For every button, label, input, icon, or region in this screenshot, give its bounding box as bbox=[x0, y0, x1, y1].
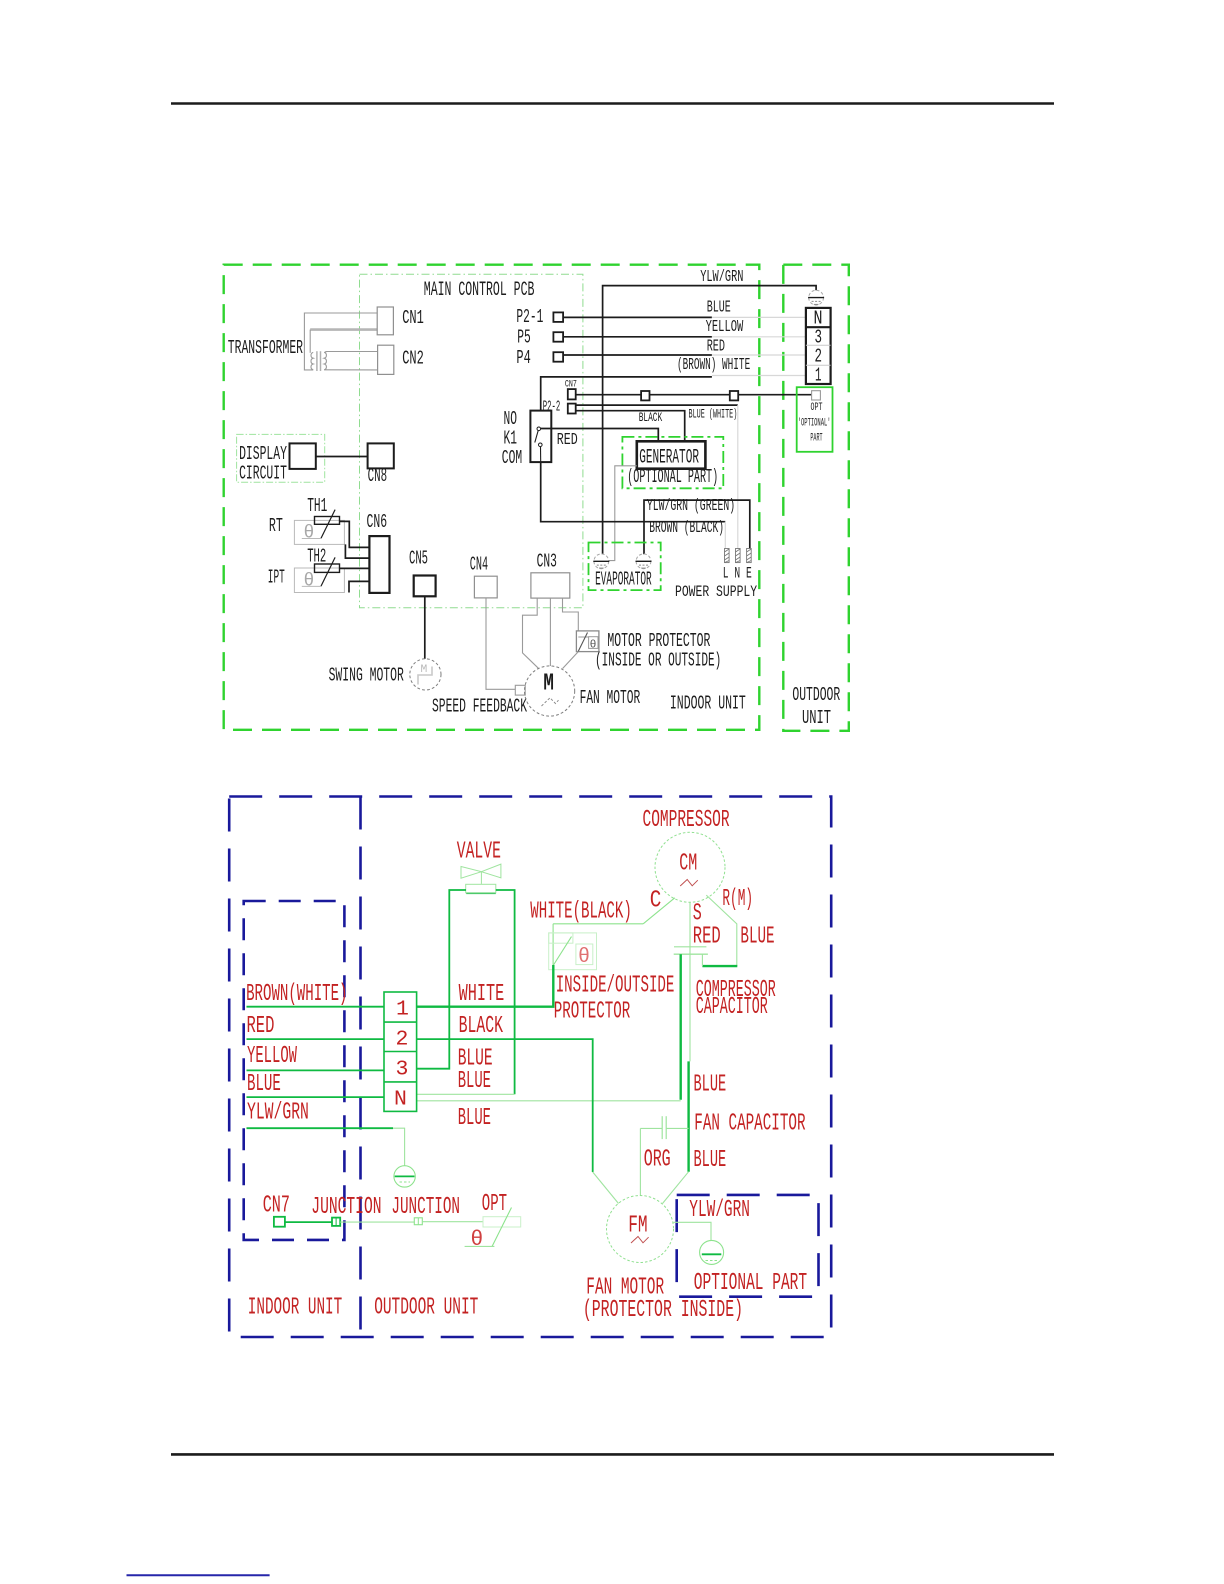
swing motor SM bbox=[410, 659, 441, 690]
connector CN8 bbox=[368, 443, 394, 468]
wire TH2 return to CN6 pin4 bbox=[349, 581, 369, 592]
wire motor protector to fan motor bbox=[563, 652, 579, 669]
svg-text:BROWN (BLACK): BROWN (BLACK) bbox=[649, 519, 724, 538]
wire generator to evaporator bbox=[609, 466, 637, 561]
generator block bbox=[637, 441, 706, 468]
wire BROWN/WHITE K1 to terminal 1 bbox=[541, 377, 712, 411]
svg-text:N: N bbox=[394, 1088, 407, 1112]
svg-text:BLUE: BLUE bbox=[247, 1071, 281, 1098]
OPT terminal square bbox=[812, 391, 821, 400]
svg-text:SPEED FEEDBACK: SPEED FEEDBACK bbox=[432, 696, 527, 718]
terminal block N-3-2-1 bbox=[806, 308, 831, 384]
svg-text:BLUE (WHITE): BLUE (WHITE) bbox=[689, 408, 738, 422]
connector CN7 bbox=[568, 389, 576, 399]
power supply terminal L bbox=[725, 549, 730, 563]
svg-text:YLW/GRN: YLW/GRN bbox=[247, 1100, 309, 1127]
wire CN3 pin3 to motor protector bbox=[563, 598, 579, 631]
evaporator earth terminal right bbox=[636, 554, 652, 569]
svg-text:θ: θ bbox=[470, 1228, 483, 1252]
outdoor unit dashed border bbox=[783, 265, 849, 731]
wire junction to junction bbox=[340, 1221, 414, 1223]
wire YELLOW to terminal 3 bbox=[247, 1069, 385, 1071]
svg-text:L N E: L N E bbox=[723, 565, 752, 583]
svg-text:YELLOW: YELLOW bbox=[706, 318, 744, 337]
svg-text:INDOOR UNIT: INDOOR UNIT bbox=[670, 693, 746, 715]
wire BLACK terminal 2 to fan motor bbox=[417, 1039, 593, 1172]
svg-text:MAIN CONTROL PCB: MAIN CONTROL PCB bbox=[424, 279, 535, 302]
svg-text:CN1: CN1 bbox=[402, 307, 424, 329]
svg-text:OUTDOOR: OUTDOOR bbox=[792, 684, 840, 706]
wire CN5 to swing motor bbox=[424, 596, 426, 659]
OPT optional part box bbox=[797, 387, 833, 452]
junction earth circle bbox=[394, 1166, 415, 1187]
svg-text:(INSIDE OR OUTSIDE): (INSIDE OR OUTSIDE) bbox=[595, 650, 721, 672]
wire YLW/GRN to junction earth bbox=[247, 1127, 394, 1129]
wire BROWN(WHITE) to terminal 1 bbox=[247, 1006, 385, 1008]
relay K1 bbox=[530, 411, 551, 463]
svg-text:TH1: TH1 bbox=[307, 495, 327, 517]
svg-text:BLUE: BLUE bbox=[458, 1105, 491, 1132]
svg-text:BLUE: BLUE bbox=[458, 1068, 491, 1095]
svg-text:P2-1: P2-1 bbox=[516, 306, 543, 328]
svg-text:θ: θ bbox=[578, 946, 590, 969]
wire RED P4 to terminal 2 bbox=[563, 354, 712, 356]
compressor capacitor plates bbox=[674, 946, 706, 948]
wire BROWN(BLACK) K1 COM to power supply L bbox=[541, 462, 726, 522]
svg-text:EVAPORATOR: EVAPORATOR bbox=[595, 569, 652, 591]
svg-text:CN7: CN7 bbox=[263, 1193, 290, 1220]
svg-text:TRANSFORMER: TRANSFORMER bbox=[228, 337, 303, 359]
wire P2-2 to power supply N bbox=[576, 404, 738, 406]
svg-text:FM: FM bbox=[628, 1213, 647, 1240]
outdoor/indoor outer dashed box bbox=[229, 797, 831, 1338]
svg-text:1: 1 bbox=[815, 365, 822, 387]
connector CN4 bbox=[474, 576, 497, 598]
svg-text:RED: RED bbox=[247, 1013, 275, 1040]
junction plug 2 bbox=[414, 1218, 422, 1225]
wire WHITE protector to terminal 1 bbox=[417, 965, 554, 1007]
valve symbol bbox=[461, 864, 501, 893]
inside/outside protector symbol bbox=[549, 933, 597, 970]
svg-text:BLACK: BLACK bbox=[459, 1013, 504, 1040]
svg-text:CN3: CN3 bbox=[537, 551, 557, 573]
junction plug 1 bbox=[332, 1218, 340, 1226]
connector P5 bbox=[553, 332, 563, 342]
svg-text:OPTIONAL PART: OPTIONAL PART bbox=[694, 1270, 807, 1297]
svg-text:UNIT: UNIT bbox=[802, 707, 831, 729]
svg-text:BROWN(WHITE): BROWN(WHITE) bbox=[246, 981, 347, 1008]
svg-text:YLW/GRN: YLW/GRN bbox=[700, 268, 743, 287]
connector CN1 bbox=[377, 307, 393, 335]
connector P2-1 bbox=[553, 312, 563, 322]
svg-text:INSIDE/OUTSIDE: INSIDE/OUTSIDE bbox=[556, 973, 675, 1000]
connector P4 bbox=[553, 352, 563, 362]
svg-text:YELLOW: YELLOW bbox=[247, 1043, 297, 1070]
wire TH2 to CN6 pin3 bbox=[340, 567, 370, 569]
page top rule bbox=[171, 102, 1054, 105]
wire BLUE compressor to fan motor bbox=[687, 1061, 689, 1171]
svg-text:VALVE: VALVE bbox=[457, 839, 501, 866]
wire YLW/GRN(GREEN) evaporator to power supply E bbox=[644, 500, 750, 554]
wire CN4 to speed feedback tap bbox=[486, 598, 515, 689]
fan motor M bbox=[525, 666, 575, 716]
indoor/outdoor divider bbox=[359, 797, 362, 1338]
main control pcb dash-dot border bbox=[360, 274, 583, 608]
wire BLUE P2-1 to terminal N bbox=[563, 316, 712, 318]
svg-text:(OPTIONAL PART): (OPTIONAL PART) bbox=[627, 466, 718, 488]
motor protector symbol bbox=[576, 631, 599, 652]
svg-text:θ: θ bbox=[304, 524, 315, 544]
svg-text:CN4: CN4 bbox=[470, 554, 488, 576]
svg-text:(PROTECTOR INSIDE): (PROTECTOR INSIDE) bbox=[583, 1297, 743, 1324]
wire junction to OPT protector bbox=[422, 1221, 483, 1223]
svg-text:RT: RT bbox=[269, 515, 283, 537]
wire transformer primary to CN1 bbox=[304, 313, 377, 370]
svg-text:PART: PART bbox=[810, 433, 822, 445]
svg-text:JUNCTION: JUNCTION bbox=[311, 1194, 381, 1221]
wire compressor S lead bbox=[689, 902, 691, 1061]
wire CN3 pin1 to fan motor bbox=[523, 598, 539, 668]
svg-text:FAN CAPACITOR: FAN CAPACITOR bbox=[694, 1111, 805, 1138]
display circuit dotted box bbox=[237, 434, 325, 482]
svg-text:M: M bbox=[543, 671, 554, 698]
display circuit block bbox=[290, 443, 316, 469]
svg-text:BLACK: BLACK bbox=[639, 411, 663, 425]
svg-text:'OPTIONAL': 'OPTIONAL' bbox=[798, 418, 831, 430]
wire TH1 to CN6 pin1 bbox=[340, 521, 370, 547]
ground symbol outdoor bbox=[808, 290, 824, 305]
svg-text:COMPRESSOR: COMPRESSOR bbox=[643, 807, 730, 834]
evaporator dash-dot box bbox=[589, 543, 661, 591]
svg-text:IPT: IPT bbox=[268, 567, 285, 589]
svg-text:YLW/GRN: YLW/GRN bbox=[689, 1197, 750, 1224]
svg-text:OPT: OPT bbox=[482, 1191, 507, 1218]
svg-text:RED: RED bbox=[707, 338, 725, 357]
svg-text:ORG: ORG bbox=[644, 1147, 671, 1174]
wire BLUE(WHITE) P2-2 to generator bbox=[576, 411, 685, 442]
svg-text:3: 3 bbox=[396, 1058, 409, 1082]
svg-text:2: 2 bbox=[396, 1028, 409, 1052]
svg-text:(BROWN) WHITE: (BROWN) WHITE bbox=[677, 356, 750, 375]
wire compressor R(M) to capacitor bbox=[706, 895, 737, 966]
svg-text:BLUE: BLUE bbox=[694, 1147, 727, 1174]
wire compressor C to protector bbox=[643, 898, 675, 924]
svg-text:JUNCTION: JUNCTION bbox=[391, 1194, 460, 1221]
wire RED to terminal 2 bbox=[247, 1038, 385, 1040]
svg-text:CN5: CN5 bbox=[409, 547, 428, 569]
page bottom rule bbox=[171, 1453, 1054, 1456]
footer link underline bbox=[127, 1574, 270, 1576]
svg-text:POWER SUPPLY: POWER SUPPLY bbox=[675, 583, 757, 601]
wire YLW/GRN evaporator earth to outdoor ground bbox=[603, 286, 817, 555]
svg-text:WHITE(BLACK): WHITE(BLACK) bbox=[530, 899, 632, 926]
wire YLW/GRN fan motor to earth bbox=[674, 1222, 712, 1240]
svg-text:1: 1 bbox=[396, 998, 409, 1022]
svg-text:BLUE: BLUE bbox=[740, 924, 774, 951]
svg-text:COM: COM bbox=[502, 447, 522, 469]
fan motor FM circle bbox=[607, 1196, 674, 1263]
svg-text:RED: RED bbox=[557, 431, 578, 450]
svg-text:OPT: OPT bbox=[811, 402, 823, 414]
svg-text:CAPACITOR: CAPACITOR bbox=[696, 994, 768, 1021]
svg-text:INDOOR UNIT: INDOOR UNIT bbox=[248, 1295, 342, 1322]
wire capacitor to terminal N (BLUE) bbox=[680, 954, 682, 1100]
wire BLUE to terminal N bbox=[247, 1096, 385, 1098]
connector CN6 bbox=[369, 536, 389, 593]
evaporator earth terminal left bbox=[593, 554, 609, 569]
connector CN5 bbox=[414, 576, 436, 597]
power supply terminal E bbox=[747, 549, 752, 563]
svg-text:CN7: CN7 bbox=[565, 379, 577, 391]
junction square on CN7 wire (left) bbox=[641, 391, 649, 400]
transformer T1 symbol bbox=[311, 351, 326, 371]
fan motor earth circle bbox=[700, 1240, 724, 1264]
svg-text:R(M): R(M) bbox=[722, 886, 753, 913]
terminal strip 1-2-3-N bbox=[384, 992, 417, 1111]
svg-text:YLW/GRN (GREEN): YLW/GRN (GREEN) bbox=[647, 497, 735, 516]
wire YELLOW P5 to terminal 3 bbox=[563, 336, 712, 338]
compressor CM motor circle bbox=[655, 832, 725, 902]
svg-text:CIRCUIT: CIRCUIT bbox=[239, 463, 287, 485]
svg-text:CM: CM bbox=[679, 851, 697, 878]
wire transformer secondary to CN2 bbox=[324, 351, 377, 354]
wire CN7 to junction plug bbox=[285, 1221, 332, 1223]
power supply terminal N bbox=[736, 549, 741, 563]
connector P2-2 bbox=[568, 404, 576, 414]
svg-text:θ: θ bbox=[304, 571, 315, 591]
wire ORG fan capacitor to fan motor bbox=[639, 1128, 641, 1196]
connector CN2 bbox=[378, 345, 394, 374]
junction square on CN7 wire (right) bbox=[730, 391, 738, 400]
svg-text:PROTECTOR: PROTECTOR bbox=[554, 999, 631, 1026]
svg-text:BLUE: BLUE bbox=[707, 299, 731, 318]
svg-text:OUTDOOR UNIT: OUTDOOR UNIT bbox=[374, 1295, 478, 1322]
svg-text:P5: P5 bbox=[517, 327, 531, 349]
wire BLACK K1 to generator bbox=[541, 429, 658, 442]
wire valve right leg to terminal N bbox=[496, 890, 515, 1094]
svg-text:WHITE: WHITE bbox=[459, 981, 505, 1008]
indoor inner dashed box bbox=[244, 901, 345, 1240]
optional part dashed box bbox=[677, 1195, 819, 1297]
connector CN3 bbox=[531, 573, 570, 598]
svg-text:SWING MOTOR: SWING MOTOR bbox=[329, 665, 404, 687]
wire TH1 return to CN6 pin2 bbox=[345, 544, 369, 558]
svg-text:BLUE: BLUE bbox=[694, 1072, 727, 1099]
wire CN7 to OPT part bbox=[576, 394, 812, 396]
wire display block to CN8 bbox=[316, 456, 368, 458]
svg-text:FAN MOTOR: FAN MOTOR bbox=[580, 687, 641, 709]
indoor unit dashed border bbox=[224, 265, 760, 730]
svg-text:CN8: CN8 bbox=[368, 465, 388, 487]
wire CN3 pin2 to fan motor bbox=[549, 598, 551, 666]
svg-text:CN6: CN6 bbox=[367, 511, 388, 533]
wire valve left leg to terminal 3 bbox=[417, 890, 466, 1069]
svg-text:CN2: CN2 bbox=[402, 348, 424, 370]
svg-text:P4: P4 bbox=[516, 347, 530, 369]
speed feedback tap square bbox=[515, 685, 525, 695]
generator optional dash-dot box bbox=[622, 437, 723, 488]
